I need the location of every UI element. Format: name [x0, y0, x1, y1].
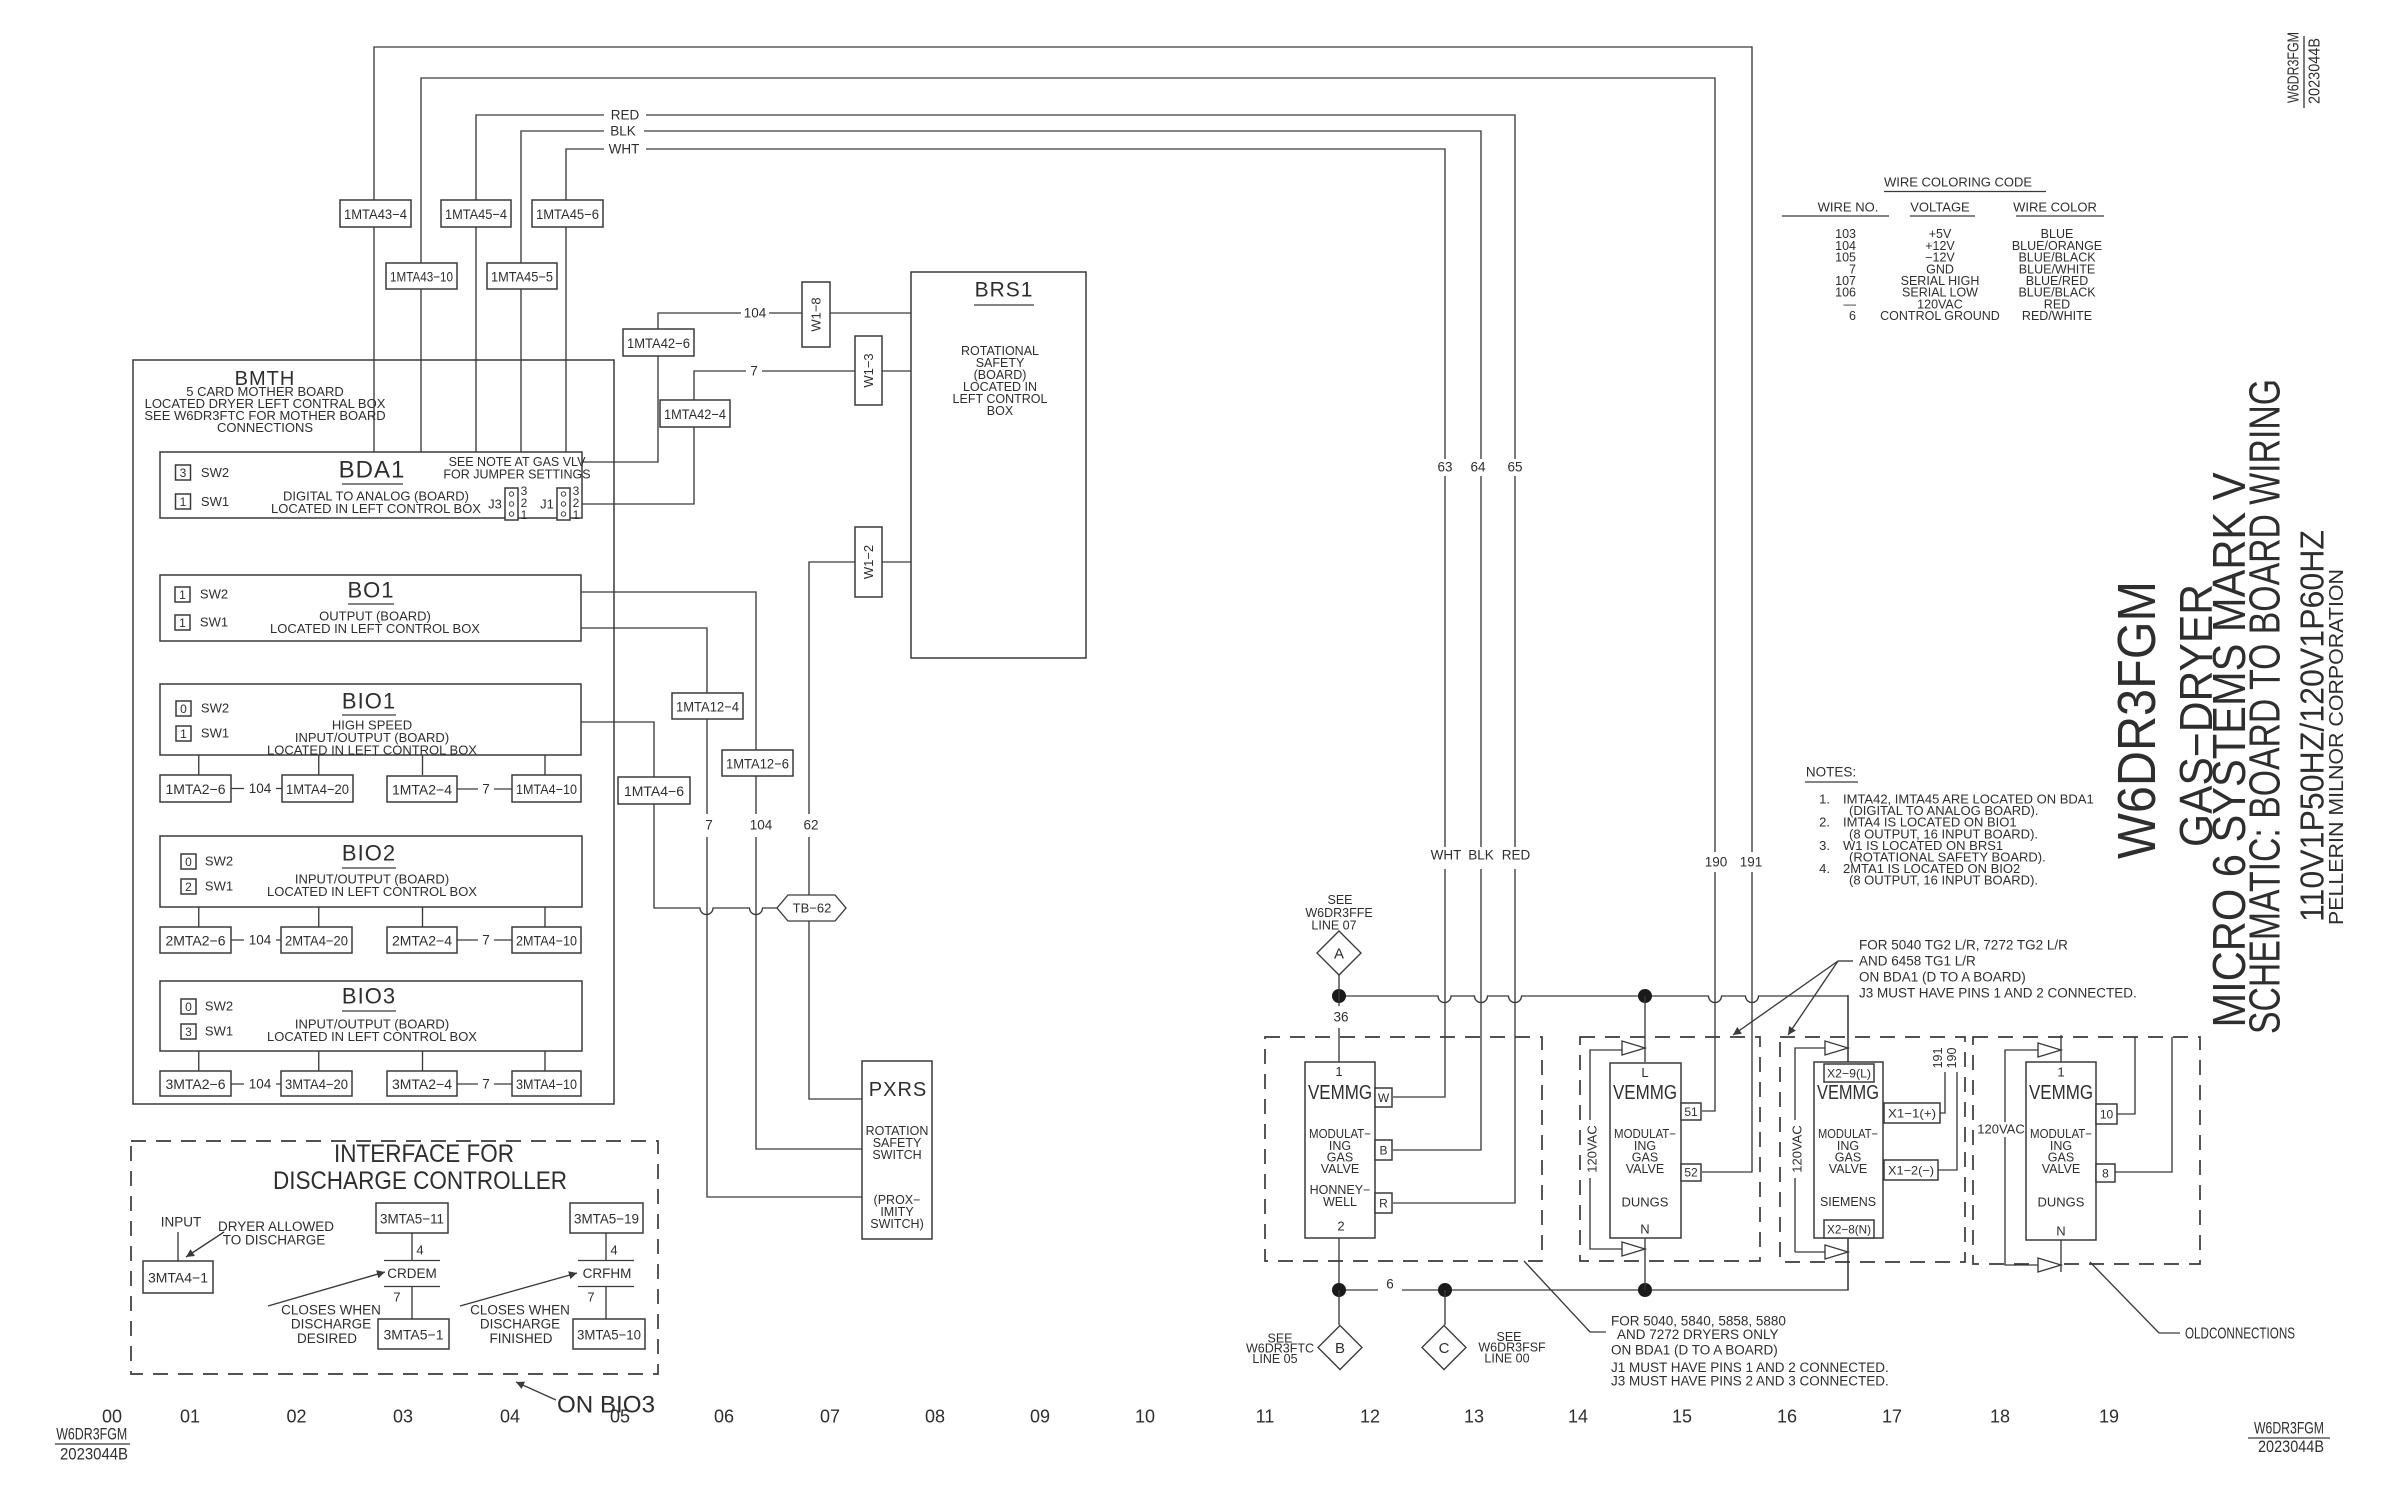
BIO3 stub wires to MTA row — [199, 1051, 545, 1071]
svg-text:2MTA4−10: 2MTA4−10 — [516, 933, 577, 949]
svg-text:2MTA2−6: 2MTA2−6 — [165, 933, 225, 949]
svg-text:7: 7 — [482, 1077, 490, 1092]
VEMMG3 pin stub X2-8(N) to bus — [1847, 1238, 1849, 1290]
svg-text:51: 51 — [1684, 1105, 1698, 1119]
svg-text:X2−8(N): X2−8(N) — [1827, 1223, 1871, 1237]
svg-text:W6DR3FGM: W6DR3FGM — [56, 1425, 127, 1444]
svg-text:NOTES:: NOTES: — [1806, 765, 1856, 780]
svg-text:SIEMENS: SIEMENS — [1820, 1195, 1876, 1209]
svg-text:INTERFACE FOR: INTERFACE FOR — [334, 1140, 514, 1168]
svg-text:1MTA43−10: 1MTA43−10 — [390, 269, 453, 285]
BIO2 SW2 dip switch — [181, 854, 196, 869]
connector 1MTA4-6 — [618, 777, 690, 804]
valve VEMMG3 box — [1814, 1062, 1883, 1238]
wire 36 into VEMMG1 pin 1 — [1338, 996, 1340, 1062]
svg-text:W: W — [1378, 1091, 1390, 1105]
svg-text:63: 63 — [1437, 460, 1452, 475]
junction dot bottom bus left — [1332, 1283, 1346, 1297]
connector W1-2 — [855, 527, 882, 597]
wire 104 link BIO3 row — [231, 1083, 281, 1085]
connector 1MTA2-6 — [160, 775, 231, 802]
svg-text:104: 104 — [249, 933, 272, 948]
svg-text:7: 7 — [482, 933, 490, 948]
junction dot bus at VEMMG2 — [1638, 989, 1652, 1003]
BDA1 SW2 dip switch — [176, 465, 191, 480]
svg-text:3MTA2−4: 3MTA2−4 — [392, 1076, 452, 1092]
connector 1MTA2-4 — [387, 776, 457, 802]
svg-text:3MTA4−1: 3MTA4−1 — [148, 1270, 208, 1286]
svg-text:SW1: SW1 — [201, 726, 229, 741]
svg-text:1MTA4−20: 1MTA4−20 — [286, 781, 349, 797]
svg-text:W1−3: W1−3 — [861, 353, 876, 387]
wire 62 net: BRS1 - W1-2 - TB-62 - PXRS top — [809, 562, 911, 1099]
wire RED / 65 net: BDA1/1MTA45-4 to VEMMG1 R — [476, 115, 1515, 1203]
board BIO3 — [160, 981, 582, 1051]
wire bottom bus 6 to X2-8(N) — [1339, 1238, 1848, 1290]
svg-text:01: 01 — [180, 1407, 200, 1427]
svg-text:7: 7 — [587, 1290, 594, 1305]
wire 3MTA5-11 to contact CRDEM — [411, 1233, 413, 1261]
svg-text:SW2: SW2 — [201, 701, 229, 716]
svg-text:BIO1: BIO1 — [342, 689, 396, 714]
board BIO1 — [160, 684, 581, 755]
VEMMG1 terminal W — [1375, 1088, 1392, 1107]
connector 3MTA5-10 — [573, 1319, 645, 1349]
svg-text:7: 7 — [705, 818, 713, 833]
svg-text:19: 19 — [2099, 1407, 2119, 1427]
VEMMG2 terminal 51 — [1681, 1103, 1701, 1120]
svg-text:TB−62: TB−62 — [793, 901, 832, 916]
svg-text:15: 15 — [1672, 1407, 1692, 1427]
dashed enclosure valve 3 — [1780, 1037, 1965, 1262]
BO1 SW1 dip switch — [175, 615, 190, 630]
svg-text:B: B — [1335, 1340, 1345, 1357]
BIO1 SW2 dip switch — [176, 701, 191, 716]
VEMMG3 terminal X2-8(N) — [1824, 1220, 1874, 1238]
svg-text:VOLTAGE: VOLTAGE — [1910, 200, 1970, 215]
VEMMG3 terminal X2-9(L) — [1824, 1064, 1874, 1082]
svg-text:104: 104 — [744, 306, 767, 321]
svg-text:1MTA4−10: 1MTA4−10 — [516, 781, 577, 797]
svg-text:FINISHED: FINISHED — [489, 1331, 552, 1346]
svg-text:WIRE COLOR: WIRE COLOR — [2013, 200, 2097, 215]
svg-text:BDA1: BDA1 — [339, 457, 406, 484]
connector 1MTA43-10 — [386, 263, 457, 289]
svg-text:VEMMG: VEMMG — [2029, 1082, 2093, 1104]
svg-text:RED: RED — [1502, 848, 1531, 863]
svg-text:W6DR3FGM: W6DR3FGM — [2107, 581, 2167, 859]
arrow CLOSES-to-CRFHM — [460, 1273, 577, 1306]
svg-text:J3: J3 — [488, 497, 502, 512]
svg-text:SW1: SW1 — [205, 1024, 233, 1039]
junction dot bottom bus VEMMG2 N — [1638, 1283, 1652, 1297]
svg-text:04: 04 — [500, 1407, 520, 1427]
svg-text:BIO2: BIO2 — [342, 841, 396, 866]
svg-text:W1−8: W1−8 — [809, 297, 824, 331]
svg-text:3MTA4−10: 3MTA4−10 — [516, 1076, 577, 1092]
svg-text:SW1: SW1 — [205, 879, 233, 894]
connector 1MTA4-10 — [512, 775, 581, 802]
VEMMG4 pin N stub — [2060, 1240, 2062, 1272]
svg-text:17: 17 — [1882, 1407, 1902, 1427]
svg-text:ON BIO3: ON BIO3 — [557, 1392, 655, 1419]
svg-text:13: 13 — [1464, 1407, 1484, 1427]
svg-text:7: 7 — [393, 1290, 400, 1305]
svg-text:LOCATED IN LEFT CONTROL BOX: LOCATED IN LEFT CONTROL BOX — [267, 1029, 477, 1044]
svg-text:BLK: BLK — [1468, 848, 1494, 863]
wire main bus 36/X2-9 line with hops — [1339, 996, 1848, 1064]
svg-text:N: N — [2056, 1224, 2065, 1239]
svg-text:3MTA5−19: 3MTA5−19 — [574, 1211, 639, 1227]
VEMMG4 top flow triangle — [2038, 1043, 2061, 1057]
svg-text:1MTA43−4: 1MTA43−4 — [344, 206, 407, 222]
svg-text:J3 MUST HAVE PINS 2 AND 3 CONN: J3 MUST HAVE PINS 2 AND 3 CONNECTED. — [1611, 1374, 1889, 1389]
VEMMG2 pin N stub to bus — [1644, 1238, 1646, 1290]
svg-text:LOCATED IN LEFT CONTROL BOX: LOCATED IN LEFT CONTROL BOX — [267, 743, 477, 758]
svg-text:RED: RED — [611, 108, 640, 123]
svg-text:1MTA45−6: 1MTA45−6 — [536, 206, 599, 222]
svg-text:1: 1 — [573, 508, 580, 522]
svg-text:VEMMG: VEMMG — [1817, 1082, 1879, 1104]
wire BO1 to 1MTA12-6 / 104 / PXRS middle — [581, 592, 862, 1149]
wire 104 link BIO1 row — [231, 788, 282, 790]
wire 191 net: BDA1/1MTA43-4 top run to VEMMG2 pin 52 — [374, 47, 1752, 1172]
diamond A reference with stub — [1338, 975, 1340, 996]
connector 1MTA43-4 — [340, 200, 411, 227]
VEMMG4 terminal 10 — [2096, 1104, 2117, 1124]
svg-text:LOCATED IN LEFT CONTROL BOX: LOCATED IN LEFT CONTROL BOX — [267, 884, 477, 899]
BIO3 SW2 dip switch — [181, 999, 196, 1014]
svg-text:4: 4 — [610, 1243, 617, 1258]
svg-text:CRDEM: CRDEM — [387, 1266, 437, 1281]
svg-text:8: 8 — [2102, 1167, 2109, 1181]
svg-text:00: 00 — [102, 1407, 122, 1427]
VEMMG3 bottom flow triangle — [1825, 1245, 1848, 1259]
svg-text:SW1: SW1 — [200, 615, 228, 630]
svg-text:1MTA45−4: 1MTA45−4 — [445, 206, 507, 222]
svg-text:2023044B: 2023044B — [2258, 1437, 2324, 1456]
svg-text:191: 191 — [1740, 855, 1763, 870]
valve VEMMG1 box — [1305, 1062, 1375, 1238]
connector 3MTA4-20 — [281, 1071, 352, 1096]
svg-text:1MTA2−4: 1MTA2−4 — [392, 782, 452, 798]
svg-text:52: 52 — [1684, 1166, 1698, 1180]
leader to dashed boxes (TG2 note) — [1733, 961, 1838, 1035]
svg-text:VALVE: VALVE — [2042, 1162, 2080, 1176]
connector 1MTA45-5 — [487, 263, 557, 289]
relay contact CRDEM — [384, 1261, 440, 1320]
svg-text:VEMMG: VEMMG — [1308, 1082, 1372, 1104]
BIO3 SW1 dip switch — [181, 1024, 196, 1039]
svg-text:ON BDA1 (D TO A BOARD): ON BDA1 (D TO A BOARD) — [1611, 1343, 1778, 1358]
BIO2 SW1 dip switch — [181, 879, 196, 894]
svg-text:WHT: WHT — [1431, 848, 1462, 863]
svg-text:CONTROL GROUND: CONTROL GROUND — [1880, 309, 2000, 323]
svg-text:3: 3 — [180, 466, 187, 480]
svg-text:PXRS: PXRS — [869, 1079, 927, 1101]
svg-text:190: 190 — [1945, 1048, 1959, 1069]
svg-text:A: A — [1334, 946, 1344, 963]
svg-text:64: 64 — [1470, 460, 1486, 475]
svg-text:10: 10 — [1135, 1407, 1155, 1427]
svg-text:DUNGS: DUNGS — [2038, 1195, 2085, 1210]
svg-text:LINE 00: LINE 00 — [1484, 1352, 1529, 1366]
svg-text:1MTA45−5: 1MTA45−5 — [491, 269, 553, 285]
VEMMG4 bottom flow triangle — [2038, 1258, 2061, 1272]
svg-text:12: 12 — [1360, 1407, 1380, 1427]
board BRS1 — [911, 272, 1086, 658]
svg-text:CRFHM: CRFHM — [583, 1266, 632, 1281]
connector 3MTA4-1 — [143, 1261, 213, 1293]
connector 1MTA12-4 — [672, 693, 743, 719]
svg-text:FOR 5040 TG2 L/R, 7272 TG2 L/R: FOR 5040 TG2 L/R, 7272 TG2 L/R — [1859, 938, 2068, 953]
board BMTH outline — [133, 360, 614, 1104]
svg-text:62: 62 — [803, 818, 818, 833]
BO1 SW2 dip switch — [175, 587, 190, 602]
svg-text:3MTA5−10: 3MTA5−10 — [577, 1327, 641, 1343]
diamond C reference with stub — [1444, 1290, 1446, 1325]
svg-text:0: 0 — [185, 855, 192, 869]
VEMMG3 top flow triangle — [1825, 1041, 1848, 1055]
wire terminal 8 riser — [2115, 1037, 2172, 1172]
wire BIO1 to 1MTA4-6 and TB-62 — [581, 722, 777, 915]
svg-text:VEMMG: VEMMG — [1613, 1082, 1677, 1104]
svg-text:3.: 3. — [1819, 838, 1830, 853]
BIO2 stub wires to MTA row — [199, 907, 545, 927]
wire 7 link BIO2 row — [457, 939, 512, 941]
VEMMG2 bottom flow triangle — [1622, 1242, 1645, 1256]
svg-text:DUNGS: DUNGS — [1622, 1195, 1669, 1210]
svg-text:65: 65 — [1507, 460, 1522, 475]
svg-text:11: 11 — [1256, 1407, 1275, 1427]
wire 104 link BIO2 row — [231, 939, 281, 941]
svg-text:4: 4 — [416, 1243, 423, 1258]
wire terminal 10 riser — [2117, 1037, 2135, 1114]
svg-text:06: 06 — [714, 1407, 734, 1427]
VEMMG3 terminal X1-1(+) — [1884, 1103, 1940, 1123]
connector 3MTA5-19 — [570, 1203, 643, 1233]
label ON BIO3 with leader — [516, 1382, 556, 1400]
svg-text:DISCHARGE: DISCHARGE — [480, 1317, 560, 1332]
VEMMG4 pin 1 stub — [2060, 1035, 2062, 1062]
valve VEMMG2 box — [1610, 1063, 1681, 1238]
svg-text:DISCHARGE CONTROLLER: DISCHARGE CONTROLLER — [273, 1167, 567, 1195]
svg-text:SW2: SW2 — [201, 465, 229, 480]
svg-text:ON BDA1 (D TO A BOARD): ON BDA1 (D TO A BOARD) — [1859, 970, 2026, 985]
connector 2MTA2-6 — [160, 927, 231, 953]
connector 2MTA2-4 — [387, 927, 457, 953]
svg-text:120VAC: 120VAC — [1585, 1125, 1600, 1172]
svg-text:3: 3 — [185, 1025, 192, 1039]
wire 7 link BIO3 row — [457, 1083, 512, 1085]
junction dot bottom bus diamond C — [1438, 1283, 1452, 1297]
svg-text:1: 1 — [180, 727, 187, 741]
VEMMG2 terminal 52 — [1681, 1164, 1701, 1181]
svg-text:16: 16 — [1777, 1407, 1797, 1427]
wire BLK / 64 net: BDA1/1MTA45-5 to VEMMG1 B — [521, 131, 1481, 1150]
svg-text:LOCATED IN LEFT CONTROL BOX: LOCATED IN LEFT CONTROL BOX — [270, 621, 480, 636]
svg-text:SW1: SW1 — [201, 494, 229, 509]
svg-text:0: 0 — [185, 1000, 192, 1014]
svg-text:1MTA42−4: 1MTA42−4 — [664, 406, 726, 422]
svg-text:120VAC: 120VAC — [1977, 1122, 2024, 1137]
VEMMG3 120VAC supply loop — [1795, 1048, 1825, 1252]
svg-text:191: 191 — [1931, 1048, 1945, 1069]
svg-text:WIRE COLORING CODE: WIRE COLORING CODE — [1884, 175, 2032, 190]
wire X1-1(+) to net 191 — [1940, 1072, 1945, 1113]
connector 1MTA45-6 — [532, 200, 603, 227]
svg-text:104: 104 — [750, 818, 773, 833]
svg-text:J1: J1 — [540, 497, 554, 512]
connector 2MTA4-10 — [512, 927, 581, 953]
svg-text:1MTA4−6: 1MTA4−6 — [624, 783, 684, 799]
svg-text:W1−2: W1−2 — [861, 545, 876, 579]
wire 3MTA5-19 to contact CRFHM — [605, 1233, 607, 1261]
wire INPUT to 3MTA4-1 — [177, 1232, 179, 1261]
junction dot bus at diamond A — [1332, 989, 1346, 1003]
svg-text:110V1P50HZ/120V1P60HZ: 110V1P50HZ/120V1P60HZ — [2294, 530, 2331, 922]
svg-text:RED/WHITE: RED/WHITE — [2022, 309, 2092, 323]
svg-text:WELL: WELL — [1323, 1195, 1357, 1209]
svg-text:X1−1(+): X1−1(+) — [1888, 1107, 1936, 1121]
svg-text:104: 104 — [249, 781, 272, 796]
terminal TB-62 hexagon — [777, 895, 846, 921]
VEMMG3 pin stub from bus to X2-9(L) — [1847, 995, 1849, 1064]
arrow to 3MTA4-1 — [186, 1232, 224, 1257]
svg-text:L: L — [1641, 1065, 1648, 1080]
VEMMG1 terminal R — [1375, 1193, 1392, 1213]
svg-text:BLK: BLK — [610, 124, 636, 139]
svg-text:TO DISCHARGE: TO DISCHARGE — [223, 1233, 326, 1248]
svg-text:6: 6 — [1386, 1277, 1394, 1292]
BIO1 SW1 dip switch — [176, 726, 191, 741]
svg-text:2023044B: 2023044B — [2307, 38, 2324, 104]
svg-text:X1−2(−): X1−2(−) — [1888, 1164, 1934, 1178]
connector 1MTA4-20 — [282, 775, 353, 802]
leader OLDCONNECTIONS — [2090, 1262, 2180, 1333]
svg-text:1MTA2−6: 1MTA2−6 — [165, 781, 225, 797]
svg-text:10: 10 — [2100, 1108, 2114, 1122]
svg-text:PELLERIN MILNOR CORPORATION: PELLERIN MILNOR CORPORATION — [2326, 569, 2348, 925]
valve VEMMG4 box — [2026, 1062, 2096, 1240]
svg-text:1: 1 — [1335, 1064, 1342, 1079]
svg-text:INPUT: INPUT — [161, 1215, 202, 1230]
svg-text:OLDCONNECTIONS: OLDCONNECTIONS — [2185, 1326, 2295, 1343]
svg-text:190: 190 — [1705, 855, 1728, 870]
connector 1MTA42-4 — [660, 400, 730, 427]
connector 3MTA5-11 — [376, 1203, 448, 1233]
wire WHT / 63 net: BDA1/1MTA45-6 to VEMMG1 W — [566, 149, 1445, 1097]
VEMMG2 top flow triangle — [1622, 1041, 1645, 1055]
connector 2MTA4-20 — [281, 927, 352, 953]
svg-text:FOR JUMPER SETTINGS: FOR JUMPER SETTINGS — [443, 468, 590, 482]
svg-text:CLOSES WHEN: CLOSES WHEN — [470, 1303, 570, 1318]
svg-text:SWITCH): SWITCH) — [870, 1217, 923, 1231]
connector 3MTA4-10 — [512, 1071, 581, 1096]
svg-text:1MTA12−6: 1MTA12−6 — [726, 756, 789, 772]
svg-text:J3 MUST HAVE PINS 1 AND 2 CONN: J3 MUST HAVE PINS 1 AND 2 CONNECTED. — [1859, 986, 2137, 1001]
svg-text:C: C — [1439, 1340, 1450, 1357]
svg-text:DISCHARGE: DISCHARGE — [291, 1317, 371, 1332]
svg-text:DESIRED: DESIRED — [297, 1331, 357, 1346]
connector W1-8 — [802, 282, 830, 347]
wire 7 net: BDA1 - 1MTA42-4 - W1-3 - BRS1 — [582, 371, 911, 504]
VEMMG4 terminal 8 — [2096, 1164, 2115, 1182]
connector 1MTA12-6 — [722, 750, 793, 776]
svg-text:WIRE NO.: WIRE NO. — [1818, 200, 1879, 215]
board BIO2 — [160, 836, 582, 907]
svg-text:2.: 2. — [1819, 815, 1830, 830]
svg-text:08: 08 — [925, 1407, 945, 1427]
svg-text:WHT: WHT — [609, 142, 640, 157]
connector 3MTA2-6 — [160, 1071, 231, 1096]
VEMMG2 120VAC supply loop — [1590, 1050, 1622, 1249]
svg-text:BO1: BO1 — [347, 578, 394, 603]
wire 190 net: BDA1/1MTA43-10 run to VEMMG2 pin 51 — [421, 78, 1715, 1111]
svg-text:AND 6458 TG1 L/R: AND 6458 TG1 L/R — [1859, 954, 1976, 969]
svg-text:BRS1: BRS1 — [975, 279, 1034, 302]
VEMMG1 terminal B — [1375, 1140, 1392, 1160]
switch PXRS box — [862, 1061, 932, 1239]
svg-text:1.: 1. — [1819, 792, 1830, 807]
svg-text:SW2: SW2 — [200, 587, 228, 602]
connector 3MTA5-1 — [378, 1319, 449, 1349]
svg-text:3MTA4−20: 3MTA4−20 — [285, 1076, 348, 1092]
svg-text:14: 14 — [1568, 1407, 1588, 1427]
svg-text:SW2: SW2 — [205, 999, 233, 1014]
relay contact CRFHM — [578, 1261, 634, 1320]
svg-text:B: B — [1379, 1144, 1387, 1158]
connector 3MTA2-4 — [387, 1071, 457, 1096]
svg-text:2: 2 — [1337, 1219, 1344, 1234]
svg-text:SCHEMATIC: BOARD TO BOARD WIRI: SCHEMATIC: BOARD TO BOARD WIRING — [2241, 379, 2290, 1034]
BIO1 stub wires to MTA row — [199, 755, 545, 775]
VEMMG4 120VAC supply loop — [2005, 1050, 2038, 1265]
VEMMG3 terminal X1-2(-) — [1884, 1160, 1938, 1180]
svg-text:1: 1 — [2057, 1065, 2064, 1080]
svg-text:1MTA42−6: 1MTA42−6 — [627, 335, 690, 351]
svg-text:2: 2 — [185, 880, 192, 894]
svg-text:CLOSES WHEN: CLOSES WHEN — [281, 1303, 381, 1318]
svg-text:AND 7272 DRYERS ONLY: AND 7272 DRYERS ONLY — [1617, 1327, 1779, 1342]
wire 104 net: BDA1 - 1MTA42-6 - W1-8 - BRS1 — [582, 313, 911, 462]
svg-text:VALVE: VALVE — [1829, 1162, 1867, 1176]
svg-text:07: 07 — [820, 1407, 840, 1427]
svg-text:BOX: BOX — [987, 404, 1014, 418]
dashed enclosure valve 1 — [1265, 1037, 1542, 1261]
BDA1 SW1 dip switch — [176, 494, 191, 509]
svg-text:R: R — [1379, 1197, 1388, 1211]
svg-text:X2−9(L): X2−9(L) — [1827, 1067, 1871, 1081]
svg-text:LINE 07: LINE 07 — [1311, 919, 1356, 933]
board BDA1 — [160, 452, 582, 518]
svg-text:3MTA5−11: 3MTA5−11 — [380, 1211, 444, 1227]
arrow CLOSES-to-CRDEM — [268, 1272, 385, 1306]
svg-text:104: 104 — [249, 1077, 272, 1092]
svg-text:SEE: SEE — [1327, 893, 1352, 907]
svg-text:03: 03 — [393, 1407, 413, 1427]
svg-text:SW2: SW2 — [205, 854, 233, 869]
svg-text:36: 36 — [1333, 1010, 1348, 1025]
svg-text:7: 7 — [750, 364, 758, 379]
diamond B reference with stub — [1338, 1290, 1340, 1325]
leader to dashed box 1 (dryers note) — [1524, 1261, 1606, 1332]
svg-text:1: 1 — [180, 495, 187, 509]
VEMMG2 pin L stub from bus — [1644, 996, 1646, 1062]
svg-text:6: 6 — [1849, 309, 1856, 323]
svg-text:LOCATED IN LEFT CONTROL BOX: LOCATED IN LEFT CONTROL BOX — [271, 501, 481, 516]
svg-text:2MTA4−20: 2MTA4−20 — [285, 933, 348, 949]
